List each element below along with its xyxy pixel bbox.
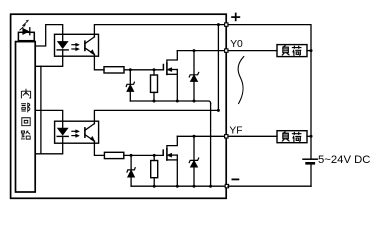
回 <box>22 118 30 126</box>
optocoupler PC2 box <box>55 121 99 143</box>
wire: opto2 LED cathode return <box>35 136 63 153</box>
resistor R1 (gate series) <box>104 67 124 73</box>
terminal YF <box>225 135 228 138</box>
wire: external + rail <box>228 25 311 51</box>
MOSFET Q2 output transistor ch1 <box>163 51 177 101</box>
terminal Y0 <box>225 49 228 52</box>
wire: YF to load 2 <box>228 135 277 137</box>
路 <box>21 131 30 140</box>
opto1 phototransistor Q1 <box>85 37 95 55</box>
wire: gate line ch1 <box>124 69 163 71</box>
wire: +V bus down to ch2 feed <box>217 25 219 111</box>
wire: supply bus down <box>310 51 312 159</box>
label 内部回路 (hand-drawn glyphs) <box>21 89 31 139</box>
internal circuit block (内部回路) <box>16 42 36 192</box>
svg-text:5~24V DC: 5~24V DC <box>318 154 370 166</box>
zener diode D2 (drain clamp ch1) <box>189 51 199 101</box>
resistor R3 (gate series ch2) <box>104 152 123 158</box>
resistor R2 (gate-source) <box>151 70 158 101</box>
battery B1 <box>303 159 317 186</box>
opto2 coupling arrows <box>72 130 79 138</box>
zener diode D3 (gate clamp ch2) <box>127 155 135 186</box>
wire: load 1 to supply bus <box>307 50 311 52</box>
PLC enclosure box <box>11 14 227 198</box>
opto2 phototransistor Q3 <box>85 124 95 142</box>
zener diode D4 (drain clamp ch2) <box>189 136 199 186</box>
svg-text:YF: YF <box>229 125 242 136</box>
optocoupler PC1 box <box>55 34 99 56</box>
wire: ch1 source rail <box>130 101 210 103</box>
wire: +V feed to opto1 collector <box>94 25 224 37</box>
wire: external - rail <box>228 185 311 187</box>
LED indicator housing box <box>18 32 34 40</box>
wire: bottom common rail <box>131 185 225 187</box>
wire: opto1 LED cathode return <box>35 50 63 66</box>
terminal + <box>225 23 228 26</box>
load box 2 <box>277 131 307 143</box>
wire: +V feed to opto2 collector <box>94 110 218 123</box>
内 <box>21 89 30 99</box>
label 負荷 load2 (hand-drawn glyphs) <box>282 132 302 142</box>
opto1 coupling arrows <box>72 43 79 51</box>
wire: Y0 to load 1 <box>228 50 277 52</box>
zener diode D1 (gate clamp) <box>126 70 134 101</box>
wire: drain rail to YF <box>177 135 224 137</box>
wire: internal circuit to opto2 LED anode <box>35 110 63 128</box>
opto1 LED <box>57 42 68 50</box>
opto2 LED <box>57 128 68 136</box>
label - <box>232 178 240 180</box>
MOSFET Q4 output transistor ch2 <box>163 136 177 186</box>
wire: load 2 to supply bus <box>307 135 311 137</box>
wire: drain rail to Y0 <box>177 50 224 52</box>
wire: opto1 emitter to gate resistor <box>94 54 104 69</box>
部 <box>21 103 30 113</box>
label 負荷 load1 (hand-drawn glyphs) <box>282 46 302 56</box>
label + <box>231 13 240 22</box>
break squiggle (omitted outputs) <box>238 57 244 104</box>
wire: opto2 emitter to gate resistor <box>94 141 104 155</box>
LED indicator emission arrows <box>20 20 29 30</box>
load box 1 <box>277 45 307 57</box>
resistor R4 (gate-source ch2) <box>151 155 158 186</box>
wire: common cathode drop <box>40 66 42 154</box>
svg-text:Y0: Y0 <box>230 39 243 50</box>
wire: gate line ch2 <box>124 154 163 156</box>
wire: ch1 rail drop to bottom rail <box>210 103 212 186</box>
wire: internal circuit to opto1 LED anode <box>35 25 63 46</box>
LED indicator diode <box>23 28 30 35</box>
terminal - <box>225 184 228 187</box>
